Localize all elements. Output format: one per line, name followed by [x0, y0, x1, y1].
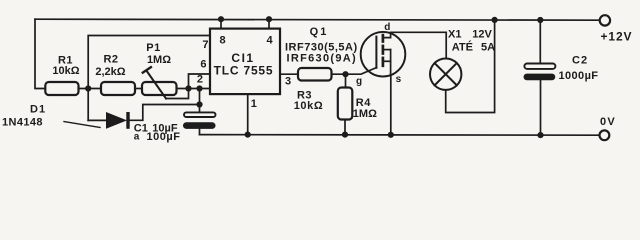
- svg-text:d: d: [384, 22, 390, 33]
- svg-text:1MΩ: 1MΩ: [353, 108, 377, 120]
- node C junction (chain to C1): [196, 85, 202, 91]
- svg-text:R2: R2: [103, 54, 118, 66]
- svg-text:1MΩ: 1MΩ: [147, 54, 171, 66]
- capacitor C1: [134, 112, 216, 143]
- diode D1: [2, 89, 130, 129]
- svg-text:C2: C2: [572, 54, 588, 66]
- wire: P1 wiper return to node B: [166, 89, 189, 99]
- resistor R3: [294, 68, 332, 112]
- wire: Q1 source down to 0V rail: [388, 75, 394, 138]
- wire: node B up to pin 6 stub: [189, 74, 211, 89]
- pin 1 stub: [245, 94, 257, 138]
- capacitor C2: [524, 17, 599, 138]
- node A junction (R1/R2/D1/pin7): [85, 85, 91, 91]
- pin 8 stub: [218, 16, 226, 46]
- potentiometer P1: [142, 42, 177, 99]
- svg-text:8: 8: [219, 35, 225, 47]
- svg-text:D1: D1: [30, 104, 46, 116]
- resistor R1: [45, 54, 79, 95]
- svg-text:IRF730(5,5A): IRF730(5,5A): [285, 42, 358, 54]
- svg-text:1N4148: 1N4148: [2, 116, 43, 128]
- svg-text:+12V: +12V: [601, 29, 633, 43]
- svg-text:ATÉ: ATÉ: [452, 40, 473, 53]
- svg-text:s: s: [396, 74, 402, 85]
- svg-text:g: g: [356, 76, 362, 87]
- terminal 0V: [600, 116, 616, 140]
- wire: top +12V rail: [35, 19, 600, 20]
- wire: R1 to R2: [79, 88, 102, 90]
- terminal +12V: [600, 15, 633, 43]
- wire: D1 cathode to node D: [130, 105, 200, 121]
- wire: left branch from rail down to R1: [35, 19, 45, 88]
- svg-text:2: 2: [197, 73, 203, 85]
- svg-text:a: a: [134, 131, 140, 142]
- node E junction (R3/R4/gate): [342, 71, 348, 77]
- svg-text:P1: P1: [146, 42, 160, 54]
- op-amp timer CI1 TLC7555: [210, 29, 280, 95]
- svg-text:5A: 5A: [481, 41, 495, 53]
- svg-text:1000µF: 1000µF: [559, 70, 599, 82]
- svg-text:6: 6: [200, 58, 206, 70]
- wire: pin 7 connection from node A up and to IC: [88, 36, 210, 89]
- wire: lamp X1 return loop to +12V rail: [446, 17, 498, 113]
- svg-text:3: 3: [285, 76, 291, 88]
- pin 3 stub: [280, 74, 298, 87]
- wire: node C down to capacitor C1: [199, 89, 201, 113]
- svg-text:7: 7: [202, 39, 208, 51]
- node D junction (D1 cathode / C1 top): [196, 101, 202, 107]
- wire: R3 to gate of Q1: [332, 68, 377, 75]
- wire: bottom 0V rail: [200, 134, 600, 137]
- svg-text:10kΩ: 10kΩ: [52, 65, 79, 77]
- resistor R2: [95, 54, 135, 95]
- svg-text:IRF630(9A): IRF630(9A): [287, 53, 357, 65]
- svg-text:0V: 0V: [600, 116, 616, 128]
- svg-text:1: 1: [251, 98, 257, 110]
- svg-text:Q1: Q1: [310, 26, 329, 38]
- svg-text:R4: R4: [356, 97, 371, 109]
- svg-text:10kΩ: 10kΩ: [294, 100, 324, 112]
- svg-text:4: 4: [266, 35, 273, 47]
- svg-text:TLC 7555: TLC 7555: [214, 64, 274, 78]
- svg-text:2,2kΩ: 2,2kΩ: [95, 66, 125, 78]
- wire: R2 to P1: [135, 88, 142, 90]
- transistor Q1 MOSFET: [285, 22, 405, 87]
- svg-text:100µF: 100µF: [147, 131, 181, 143]
- wire: Q1 drain to lamp X1: [391, 32, 447, 58]
- svg-text:12V: 12V: [472, 29, 492, 41]
- pin 4 stub: [266, 16, 274, 46]
- resistor R4: [338, 74, 377, 138]
- node B junction (P1/pin6/wiper): [185, 85, 191, 91]
- svg-text:X1: X1: [448, 29, 461, 41]
- wire: P1 right terminal to IC pin 2: [177, 88, 211, 90]
- lamp X1: [430, 29, 495, 90]
